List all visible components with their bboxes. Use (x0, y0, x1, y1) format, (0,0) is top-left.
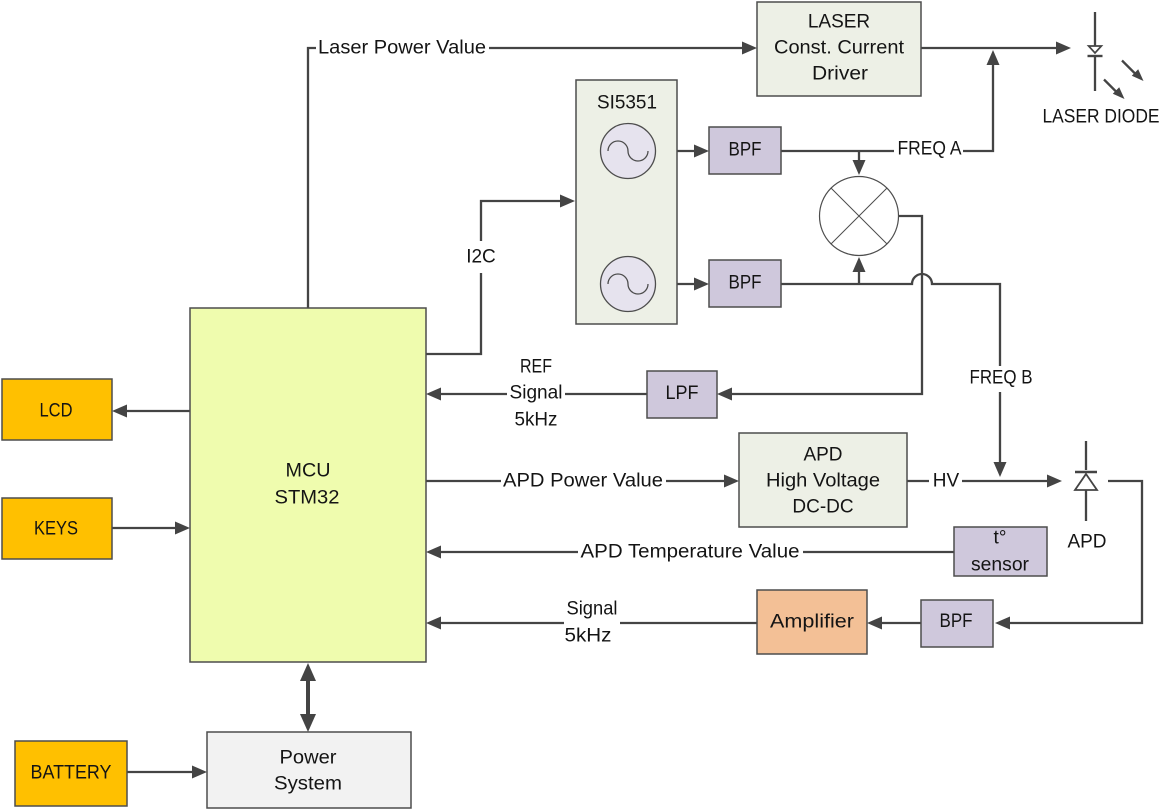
block Power System (207, 732, 411, 808)
block BPF2 (709, 260, 781, 307)
svg-text:Amplifier: Amplifier (770, 612, 855, 633)
block t sensor (954, 527, 1047, 576)
wire LPF to MCU (REF Signal 5kHz) (426, 388, 647, 401)
block SI5351 (576, 80, 677, 324)
wire APD to BPF3 (995, 481, 1142, 630)
svg-text:APD: APD (1067, 532, 1106, 553)
oscillator 2 (601, 257, 656, 312)
laser emission arrow 1 (1122, 61, 1144, 82)
svg-text:FREQ A: FREQ A (898, 139, 962, 160)
svg-text:Laser Power Value: Laser Power Value (318, 38, 486, 59)
wire LASER driver output to laser diode (921, 42, 1071, 55)
svg-text:BATTERY: BATTERY (31, 763, 112, 784)
svg-text:MCU: MCU (286, 461, 331, 482)
svg-text:5kHz: 5kHz (565, 626, 612, 647)
block Amplifier (757, 590, 867, 654)
svg-text:LCD: LCD (40, 401, 73, 422)
svg-text:BPF: BPF (729, 140, 762, 161)
svg-text:APD: APD (803, 445, 842, 466)
svg-text:REF: REF (520, 357, 552, 378)
junction arrow into mixer bottom (853, 257, 866, 284)
svg-text:DC-DC: DC-DC (792, 497, 853, 518)
wire oscillator1 to BPF1 (656, 145, 709, 158)
svg-text:I2C: I2C (466, 247, 496, 268)
svg-text:t°: t° (994, 528, 1007, 549)
wire Amplifier to MCU (Signal 5kHz) (426, 617, 757, 630)
block KEYS (2, 498, 112, 559)
wire BPF1 output (FREQ A) (781, 150, 894, 152)
wire I2C MCU to SI5351 (426, 195, 575, 355)
block BPF3 (921, 600, 993, 647)
junction arrow into mixer top (853, 151, 866, 175)
svg-text:BPF: BPF (940, 611, 973, 632)
oscillator 1 (601, 124, 656, 179)
block LPF (647, 371, 717, 418)
svg-text:STM32: STM32 (275, 488, 340, 509)
svg-text:System: System (274, 774, 342, 795)
svg-text:LPF: LPF (666, 383, 699, 404)
wire BATTERY to Power System (127, 766, 207, 779)
wire t sensor to MCU (APD Temperature Value) (426, 546, 954, 559)
svg-text:KEYS: KEYS (34, 519, 78, 540)
svg-text:Signal: Signal (567, 599, 618, 620)
svg-text:Signal: Signal (510, 383, 563, 404)
svg-text:FREQ B: FREQ B (970, 368, 1033, 389)
laser emission arrow 2 (1104, 80, 1125, 100)
svg-text:APD Power Value: APD Power Value (503, 471, 663, 492)
block BATTERY (15, 741, 127, 806)
wire HV DC-DC to APD (907, 475, 1062, 488)
wire APD Power Value MCU to DC-DC (426, 475, 739, 488)
wire MCU to Power System double arrow (300, 663, 316, 732)
svg-text:Power: Power (280, 748, 338, 769)
laser diode D1 (1088, 12, 1103, 91)
svg-text:BPF: BPF (729, 273, 762, 294)
mixer (820, 177, 899, 256)
svg-text:LASER DIODE: LASER DIODE (1043, 107, 1160, 128)
svg-text:APD Temperature Value: APD Temperature Value (581, 542, 800, 563)
block APD High Voltage DC-DC (739, 433, 907, 527)
wire KEYS to MCU (112, 522, 190, 535)
wire FREQ A riser to laser drive line (963, 50, 1000, 151)
photodiode APD (1075, 441, 1097, 521)
wire FREQ B down to HV line (994, 392, 1007, 477)
wire mixer output to LPF (717, 216, 922, 401)
svg-text:SI5351: SI5351 (597, 93, 657, 114)
block LASER Const. Current Driver (757, 2, 921, 96)
svg-text:HV: HV (933, 471, 960, 492)
svg-text:High Voltage: High Voltage (766, 471, 880, 492)
svg-text:Const. Current: Const. Current (774, 38, 905, 59)
wire BPF3 to Amplifier (867, 617, 921, 630)
block BPF1 (709, 127, 781, 174)
svg-text:5kHz: 5kHz (515, 410, 558, 431)
wire oscillator2 to BPF2 (656, 278, 709, 291)
wire MCU to LCD (112, 405, 190, 418)
wire Laser Power Value (MCU top to LASER driver) (308, 42, 757, 309)
svg-text:sensor: sensor (971, 555, 1030, 576)
svg-text:LASER: LASER (808, 12, 870, 33)
block MCU STM32 (190, 308, 426, 662)
wire BPF2 output to FREQ B with hop over mixer-LPF wire (781, 274, 1000, 366)
svg-text:Driver: Driver (812, 64, 869, 85)
block LCD (2, 379, 112, 440)
